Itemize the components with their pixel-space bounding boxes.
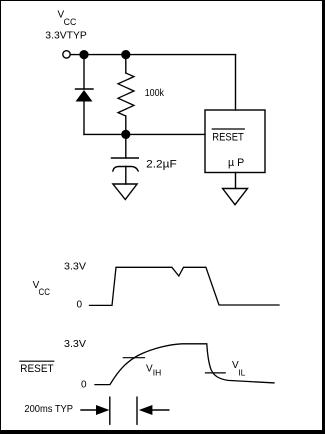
label RESET waveform axis xyxy=(20,363,54,375)
junction at diode xyxy=(79,50,88,59)
waveform RESET trace xyxy=(95,344,274,385)
label VCC waveform axis xyxy=(33,280,51,297)
svg-text:2.2µF: 2.2µF xyxy=(146,158,177,170)
ground capacitor xyxy=(113,184,137,200)
marker bar 2 xyxy=(136,397,138,424)
svg-text:3.3V: 3.3V xyxy=(64,339,86,350)
svg-text:IL: IL xyxy=(238,368,245,378)
threshold tick VIH xyxy=(123,357,144,359)
label RESET pin xyxy=(212,132,244,144)
diode D1 xyxy=(76,55,94,135)
microprocessor U1 xyxy=(205,110,265,173)
label VCC supply xyxy=(58,9,77,27)
threshold tick VIL xyxy=(206,372,226,374)
overline RESET pin xyxy=(212,128,244,130)
svg-text:3.3VTYP: 3.3VTYP xyxy=(45,29,87,41)
svg-text:IH: IH xyxy=(153,368,162,378)
svg-text:100k: 100k xyxy=(145,88,165,99)
svg-text:3.3V: 3.3V xyxy=(64,261,86,272)
arrow right xyxy=(81,405,109,415)
label VIL xyxy=(232,360,246,378)
marker bar 1 xyxy=(109,397,111,424)
node VCC input terminal xyxy=(63,51,70,58)
svg-text:CC: CC xyxy=(39,287,51,297)
junction at resistor bottom xyxy=(121,130,130,139)
arrow left xyxy=(139,405,169,415)
ground uP xyxy=(223,189,248,205)
junction at resistor top xyxy=(121,50,130,59)
svg-text:RESET: RESET xyxy=(20,363,54,375)
svg-text:0: 0 xyxy=(81,380,87,391)
resistor R1 xyxy=(118,55,134,135)
overline RESET waveform axis xyxy=(20,360,54,362)
capacitor C1 xyxy=(112,134,139,184)
svg-text:RESET: RESET xyxy=(212,132,244,144)
wire bottom rail to uP RESET xyxy=(84,133,205,135)
svg-text:200ms TYP: 200ms TYP xyxy=(24,403,73,415)
label VIH xyxy=(146,364,161,378)
waveform VCC trace xyxy=(90,267,280,305)
svg-text:CC: CC xyxy=(64,17,77,27)
svg-text:µ P: µ P xyxy=(228,157,244,169)
wire top rail xyxy=(71,54,236,56)
wire right vertical to uP xyxy=(235,55,237,110)
svg-text:0: 0 xyxy=(77,299,83,310)
wire uP ground xyxy=(235,173,237,189)
